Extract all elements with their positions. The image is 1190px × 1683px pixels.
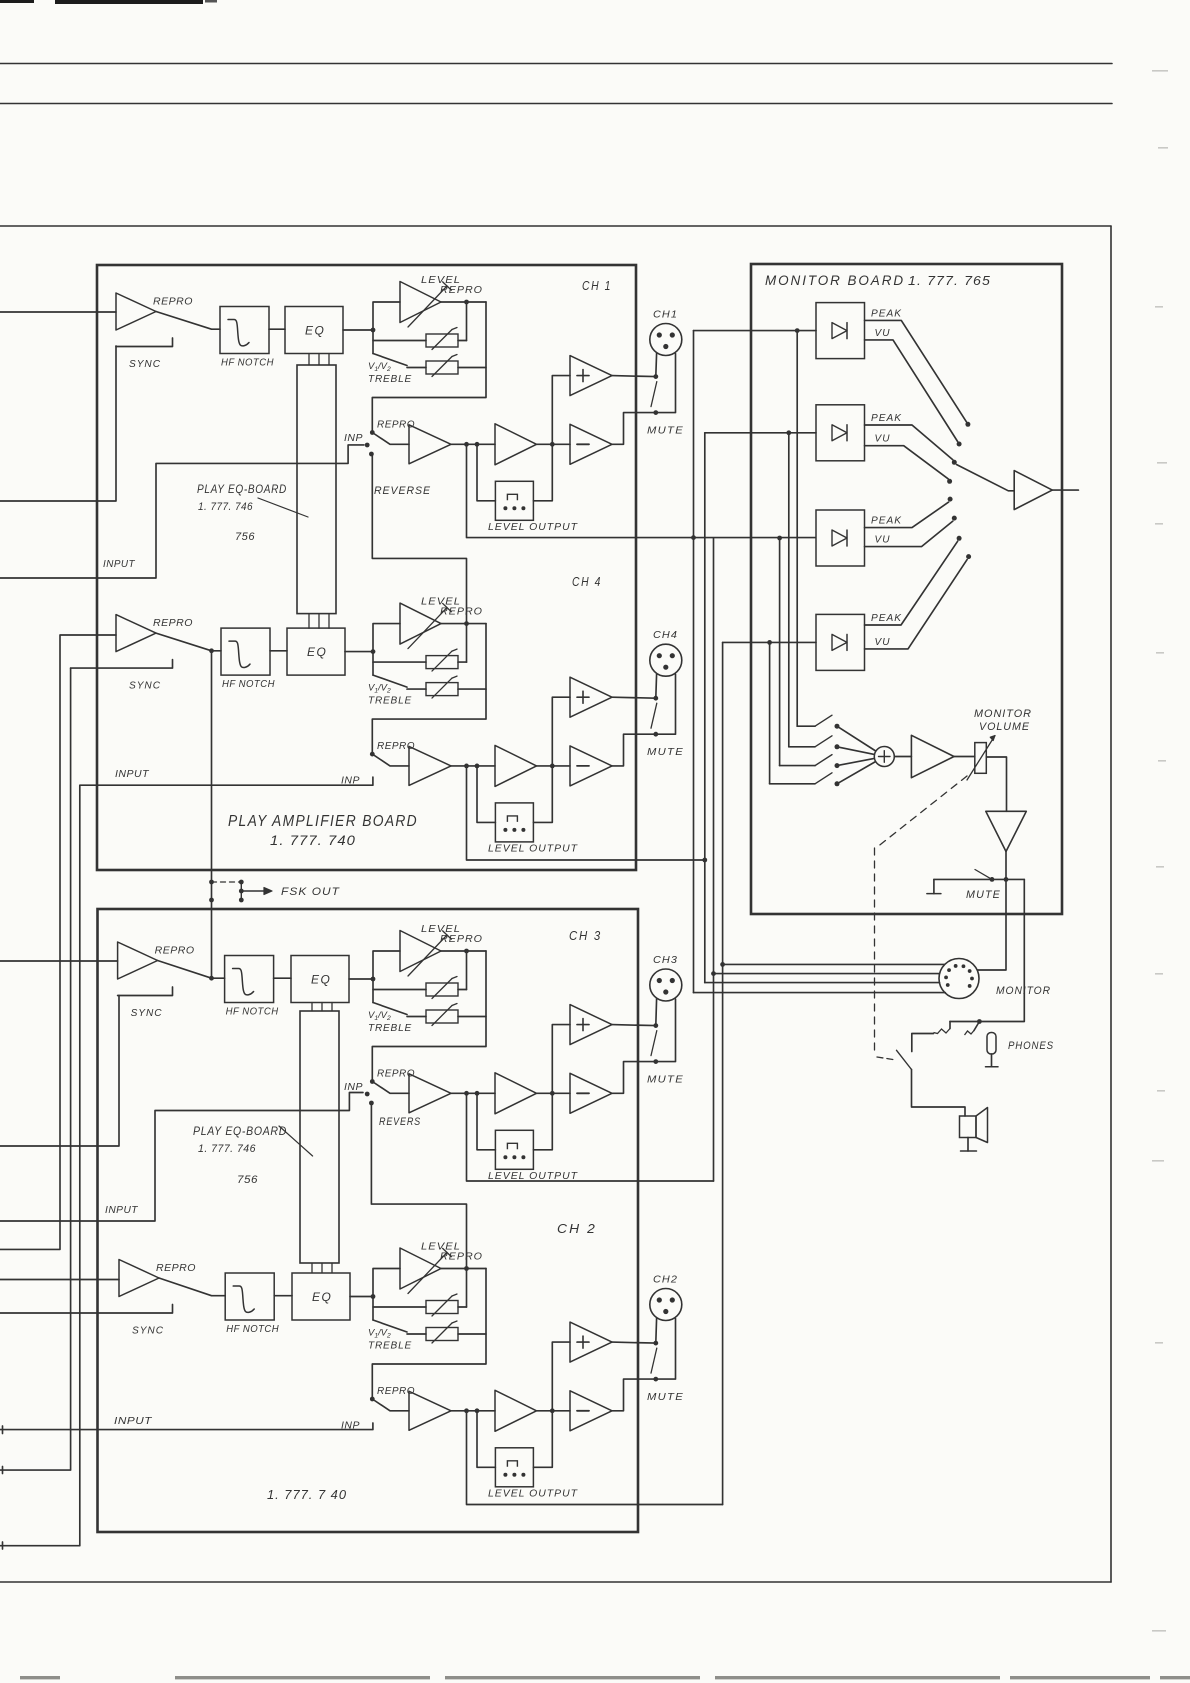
- node CH3 level output junction: [464, 949, 469, 954]
- svg-text:HF NOTCH: HF NOTCH: [222, 679, 275, 690]
- node CH4 output node: [550, 764, 555, 769]
- connector MONITOR socket: [939, 959, 979, 999]
- wire CH2 monitor tap: [467, 1411, 723, 1505]
- svg-text:INPUT: INPUT: [114, 1415, 153, 1427]
- amp CH3 repro input: [118, 942, 158, 979]
- svg-text:1. 777. 7 40: 1. 777. 7 40: [267, 1487, 347, 1502]
- svg-text:LEVEL OUTPUT: LEVEL OUTPUT: [488, 521, 579, 533]
- svg-text:PEAK: PEAK: [871, 413, 902, 424]
- wire monitor line 3: [705, 982, 940, 984]
- switch monitor select 3: [780, 765, 815, 767]
- scan mark bottom edge band: [20, 1676, 60, 1679]
- node phones junction: [977, 1019, 982, 1024]
- switch CH3 reverse contact: [369, 1101, 374, 1106]
- wire meter output to frame edge: [1052, 489, 1078, 491]
- svg-text:EQ: EQ: [307, 645, 327, 659]
- svg-text:1. 777. 746: 1. 777. 746: [198, 1143, 256, 1155]
- svg-text:TREBLE: TREBLE: [368, 696, 412, 707]
- switch CH4 treble select: [372, 662, 374, 675]
- node bus CH3 monitor junction: [711, 971, 716, 976]
- wire monitor select 2 to summing node: [837, 747, 874, 755]
- resistor CH3 treble V1: [373, 979, 426, 990]
- node CH2 level output junction: [464, 1266, 469, 1271]
- wire FSK vertical: [211, 651, 213, 978]
- svg-text:MUTE: MUTE: [966, 889, 1001, 901]
- wire CH2 treble V1 to collector: [458, 1306, 467, 1308]
- scan marks right margin: [1152, 70, 1168, 72]
- svg-text:PEAK: PEAK: [871, 613, 902, 624]
- box CH2 EQ: [292, 1273, 350, 1320]
- amp CH3 drive: [409, 1074, 451, 1113]
- switch CH1 reverse contact: [369, 452, 374, 457]
- wire CH3 notch to EQ: [274, 977, 291, 979]
- svg-text:CH2: CH2: [653, 1275, 678, 1286]
- wire CH3 XLR left leg: [655, 999, 658, 1026]
- svg-text:SYNC: SYNC: [129, 358, 161, 370]
- amp CH2 repro input: [119, 1260, 159, 1297]
- box CH2 HF NOTCH: [225, 1273, 274, 1320]
- node CH3 EQ output: [371, 977, 376, 982]
- switch CH1 INP contact: [365, 443, 370, 448]
- wire CH1 treble V2 to collector: [458, 367, 486, 369]
- wire CH1 input from left edge: [0, 445, 364, 578]
- box PEAK/VU block 3: [816, 510, 865, 566]
- wire output stage to mute: [1005, 852, 1007, 880]
- wire stub tick left edge CH4 input: [2, 1542, 4, 1549]
- wire CH1 EQ output to node: [343, 329, 373, 331]
- switch CH3 treble select: [372, 990, 374, 1003]
- node bus CH2 monitor junction: [720, 962, 725, 967]
- node bus CH4 tap junction: [702, 858, 707, 863]
- wire phones feed down: [950, 879, 1024, 1021]
- connector XLR CH2: [650, 1289, 682, 1321]
- amp CH1 level repro variable: [373, 302, 400, 330]
- pins play EQ-board 1 top: [308, 354, 310, 366]
- svg-text:PLAY AMPLIFIER BOARD: PLAY AMPLIFIER BOARD: [228, 813, 418, 830]
- box CH1 HF NOTCH: [220, 307, 269, 354]
- svg-text:SYNC: SYNC: [131, 1007, 163, 1019]
- outer frame right edge: [1110, 226, 1112, 1582]
- svg-text:LEVEL OUTPUT: LEVEL OUTPUT: [488, 1170, 579, 1182]
- outer frame bottom edge: [0, 1581, 1111, 1583]
- monitor board outline: [751, 264, 1062, 914]
- wire CH1 sync to left edge: [0, 346, 116, 501]
- svg-text:MUTE: MUTE: [647, 425, 684, 437]
- pins play EQ-board 2 top: [311, 1003, 313, 1012]
- svg-text:EQ: EQ: [305, 324, 325, 338]
- wire CH1 notch to EQ: [269, 328, 285, 330]
- svg-text:REPRO: REPRO: [440, 933, 483, 945]
- amp CH2 line: [495, 1390, 537, 1431]
- meter rectifier symbol block 1: [832, 323, 847, 339]
- amp CH2 balanced plus: [552, 1342, 570, 1411]
- amp CH4 line: [495, 745, 537, 786]
- pins play EQ-board 1 bottom: [308, 614, 310, 629]
- box PEAK/VU block 1: [816, 303, 865, 359]
- svg-text:INPUT: INPUT: [115, 768, 150, 780]
- wire CH3 plus output to mute: [612, 1025, 656, 1026]
- play amplifier board 2 outline: [98, 909, 639, 1532]
- amp CH2 level repro variable: [373, 1269, 400, 1297]
- svg-text:MUTE: MUTE: [647, 1074, 684, 1086]
- wire CH4 notch to EQ: [270, 650, 287, 652]
- node PEAK/VU block 3 selector-bus junction: [777, 536, 782, 541]
- wire CH2 level output box left leg: [477, 1411, 495, 1468]
- amp meter output: [1014, 471, 1052, 510]
- wire CH2 repro input from left edge: [0, 1279, 119, 1281]
- wire CH2 level output box right leg: [533, 1411, 552, 1468]
- connector PHONES jack: [987, 1033, 996, 1055]
- play amplifier board 1 outline: [97, 265, 636, 870]
- wire FSK right bar: [240, 882, 242, 900]
- svg-text:756: 756: [235, 531, 255, 543]
- switch CH1 sync contact: [116, 338, 173, 347]
- wire CH3 treble collector: [372, 951, 486, 1082]
- svg-text:1. 777. 746: 1. 777. 746: [198, 501, 253, 513]
- wire CH1 treble V1 to collector: [458, 340, 467, 342]
- switch CH3 INP contact: [365, 1092, 370, 1097]
- svg-text:REVERSE: REVERSE: [374, 485, 431, 497]
- svg-text:HF NOTCH: HF NOTCH: [221, 358, 274, 369]
- wire selector bus block 1: [796, 331, 798, 727]
- wire CH1 drive amp to line amp: [451, 443, 495, 445]
- node monitor mute junction: [1004, 877, 1009, 882]
- wire CH3 repro switch blade: [158, 961, 225, 979]
- amp CH4 balanced minus: [570, 746, 612, 786]
- box PEAK/VU block 4: [816, 614, 865, 670]
- amp CH4 balanced plus: [552, 697, 570, 766]
- node CH2 line node a: [464, 1408, 469, 1413]
- callout line play EQ-board 2: [279, 1126, 313, 1156]
- wire PEAK/VU block 1 input: [694, 330, 817, 332]
- wire CH4 treble V1 to collector: [458, 661, 467, 663]
- connector XLR CH4: [650, 644, 682, 676]
- wire CH3 line amp output: [537, 1092, 571, 1094]
- amp monitor output stage (down): [986, 811, 1027, 851]
- wire monitor line 1: [723, 963, 945, 965]
- svg-text:REVERS: REVERS: [379, 1116, 421, 1128]
- wire CH2 XLR left leg: [655, 1318, 658, 1343]
- wire output stage to connector right: [977, 879, 1006, 970]
- node CH2 output node: [550, 1408, 555, 1413]
- wire monitor line 4: [694, 992, 946, 994]
- title block rule upper: [0, 63, 1112, 65]
- wire CH1 line amp output: [537, 443, 571, 445]
- switch speaker blade: [897, 1050, 912, 1069]
- box CH3 HF NOTCH: [225, 956, 274, 1003]
- wire PEAK output block 2: [865, 425, 953, 460]
- wire bus CH3 to monitor: [713, 538, 715, 1181]
- connector XLR CH1: [650, 324, 682, 356]
- wire CH4 repro switch blade: [156, 633, 221, 651]
- switch meter selector blade: [957, 465, 1015, 491]
- wire PEAK/VU block 4 input: [723, 641, 816, 643]
- svg-text:CH 2: CH 2: [557, 1221, 597, 1236]
- svg-text:PEAK: PEAK: [871, 516, 902, 527]
- wire CH2 line amp output: [537, 1410, 571, 1412]
- wire CH4 XLR left leg: [655, 674, 658, 699]
- node CH3 repro-FSK junction: [209, 976, 214, 981]
- switch monitor select 4: [770, 783, 815, 785]
- wire selector bus block 3: [779, 538, 781, 766]
- box CH2 level output: [495, 1448, 533, 1487]
- wire CH4 plus output to mute: [612, 697, 656, 698]
- wire CH2 drive amp to line amp: [451, 1410, 495, 1412]
- wire CH4 input bus from left edge: [0, 777, 373, 1546]
- svg-text:SYNC: SYNC: [129, 680, 161, 692]
- wire bus CH2 to monitor: [722, 642, 724, 1504]
- wire CH1 reverse to CH4: [372, 454, 466, 624]
- wire mute to phones feed: [992, 878, 1024, 880]
- wire monitor select 3 to summing node: [837, 758, 874, 765]
- scan mark top-left black strip: [0, 0, 34, 3]
- wire CH4 repro input bus from left edge: [0, 635, 116, 1249]
- svg-text:VOLUME: VOLUME: [979, 721, 1030, 733]
- switch CH4 repro drive contact: [370, 752, 375, 757]
- wire monitor select 1 to summing node: [837, 726, 876, 751]
- wire CH3 drive amp to line amp: [451, 1092, 495, 1094]
- amp CH2 balanced minus: [570, 1391, 612, 1431]
- amp monitor: [911, 735, 954, 777]
- box CH3 level output: [495, 1130, 533, 1169]
- wire CH2 level repro output: [441, 1268, 486, 1270]
- svg-text:INP: INP: [344, 1082, 363, 1093]
- potentiometer MONITOR VOLUME: [975, 743, 987, 774]
- selector contact dots PEAK/VU: [965, 422, 970, 427]
- wire CH4 level output box right leg: [533, 766, 552, 823]
- switch CH3 mute: [653, 1023, 658, 1028]
- wire CH1 level repro output: [441, 301, 486, 303]
- speaker symbol: [960, 1116, 977, 1138]
- amp CH3 line: [495, 1073, 537, 1114]
- switch CH2 mute: [653, 1341, 658, 1346]
- svg-text:REPRO: REPRO: [153, 296, 193, 308]
- wire CH4 level repro output: [441, 623, 486, 625]
- svg-text:CH 1: CH 1: [582, 278, 612, 293]
- wire VU output block 3: [865, 521, 953, 547]
- svg-text:INP: INP: [341, 775, 360, 786]
- svg-text:SYNC: SYNC: [132, 1325, 164, 1337]
- node CH1 EQ output: [371, 328, 376, 333]
- amp CH3 level repro variable: [373, 951, 400, 979]
- meter rectifier symbol block 2: [832, 425, 847, 441]
- box CH1 EQ: [285, 307, 343, 354]
- connector XLR CH3: [650, 969, 682, 1001]
- node PEAK/VU block 4 selector-bus junction: [767, 640, 772, 645]
- wire PEAK output block 3: [865, 502, 949, 527]
- wire CH4 drive amp to line amp: [451, 765, 495, 767]
- svg-text:VU: VU: [875, 328, 891, 339]
- wire CH1 level output box right leg: [533, 444, 552, 501]
- amp CH1 repro input: [116, 293, 156, 330]
- switch CH1 repro drive contact: [370, 430, 375, 435]
- meter rectifier symbol block 4: [832, 634, 847, 650]
- node CH1 line node b: [475, 442, 480, 447]
- resistor CH2 treble V2: [407, 1333, 426, 1335]
- switch CH3 sync contact: [118, 987, 173, 996]
- svg-text:MUTE: MUTE: [647, 746, 684, 758]
- node CH4 line node b: [475, 764, 480, 769]
- box CH4 HF NOTCH: [221, 628, 270, 675]
- wire CH4 treble V2 to collector: [458, 688, 486, 690]
- box CH4 level output: [495, 803, 533, 842]
- wire CH2 minus output to mute: [612, 1319, 676, 1411]
- wire CH3 level output box left leg: [477, 1093, 495, 1150]
- node FSK right top: [239, 880, 244, 885]
- wire CH3 level output box right leg: [533, 1093, 552, 1150]
- box PEAK/VU block 2: [816, 405, 865, 461]
- wire stub tick left edge CH4 sync: [2, 1467, 4, 1474]
- wire monitor line 2: [714, 973, 940, 975]
- svg-text:VU: VU: [875, 434, 891, 445]
- wire CH3 monitor tap: [467, 1093, 714, 1181]
- svg-text:LEVEL OUTPUT: LEVEL OUTPUT: [488, 1487, 579, 1499]
- wire FSK dashed link: [212, 881, 242, 883]
- switch monitor MUTE: [934, 878, 992, 880]
- svg-text:CH1: CH1: [653, 310, 678, 321]
- switch phones jack contact right: [974, 1022, 979, 1031]
- summing node monitor: [874, 747, 894, 767]
- resistor CH3 treble V2: [407, 1016, 426, 1018]
- switch phones jack contact left: [949, 1022, 951, 1029]
- switch CH1 treble select: [372, 341, 374, 354]
- svg-text:INPUT: INPUT: [103, 558, 136, 570]
- wire CH4 sync bus to left edge: [0, 668, 71, 1470]
- amp CH1 balanced minus: [570, 424, 612, 464]
- dashed mechanical link volume to phones switch: [876, 776, 967, 848]
- amp CH1 line: [495, 424, 537, 465]
- pins play EQ-board 2 bottom: [311, 1263, 313, 1272]
- svg-text:PEAK: PEAK: [871, 308, 902, 319]
- wire CH1 level output box left leg: [477, 444, 495, 501]
- amp CH1 balanced plus: [552, 376, 570, 445]
- amp CH3 balanced minus: [570, 1073, 612, 1113]
- resistor CH4 treble V2: [407, 688, 426, 690]
- wire CH4 monitor tap: [467, 766, 705, 860]
- svg-text:VU: VU: [875, 637, 891, 648]
- svg-text:INP: INP: [341, 1420, 360, 1431]
- node PEAK/VU block 1 selector-bus junction: [795, 328, 800, 333]
- amp CH3 balanced plus: [552, 1025, 570, 1094]
- node CH4 EQ output: [371, 649, 376, 654]
- switch CH2 sync contact: [0, 1305, 173, 1314]
- node FSK dash left bottom: [209, 898, 214, 903]
- wire bus CH4 to monitor: [704, 433, 706, 983]
- amp CH4 level repro variable: [373, 624, 400, 652]
- svg-text:REPRO: REPRO: [153, 617, 193, 629]
- svg-text:LEVEL OUTPUT: LEVEL OUTPUT: [488, 842, 579, 854]
- wire CH3 input from left edge: [0, 1093, 363, 1222]
- svg-text:TREBLE: TREBLE: [368, 1341, 412, 1352]
- meter rectifier symbol block 3: [832, 530, 847, 546]
- wire monitor amp to volume: [954, 756, 975, 758]
- switch CH3 repro drive contact: [370, 1079, 375, 1084]
- node CH4 level output junction: [464, 621, 469, 626]
- wire CH2 treble V2 to collector: [458, 1333, 486, 1335]
- box CH1 level output: [495, 481, 533, 520]
- wire CH3 level repro output: [441, 950, 486, 952]
- switch monitor select 1: [797, 725, 815, 727]
- box CH3 EQ: [291, 956, 349, 1003]
- wire CH3 repro input from left edge: [0, 960, 118, 962]
- wire monitor select 4 to summing node: [837, 762, 875, 784]
- wire CH2 notch to EQ: [274, 1295, 292, 1297]
- wire VU output block 2: [865, 446, 949, 479]
- wire volume to phones amp: [986, 757, 1006, 811]
- svg-text:HF NOTCH: HF NOTCH: [226, 1007, 279, 1018]
- node CH4 repro-FSK junction: [209, 648, 214, 653]
- svg-text:1. 777. 765: 1. 777. 765: [908, 274, 991, 288]
- svg-text:MONITOR BOARD: MONITOR BOARD: [765, 272, 905, 288]
- wire PEAK/VU block 2 input: [705, 432, 816, 434]
- svg-text:FSK OUT: FSK OUT: [281, 886, 340, 898]
- wire PEAK output block 4: [865, 541, 958, 625]
- wire CH4 level output box left leg: [477, 766, 495, 823]
- resistor CH1 treble V2: [407, 367, 426, 369]
- wire CH4 EQ output to node: [345, 651, 373, 653]
- node CH3 line node a: [464, 1091, 469, 1096]
- box play EQ-board 1 rectangle: [297, 365, 336, 614]
- svg-text:CH 3: CH 3: [569, 928, 602, 943]
- svg-text:MUTE: MUTE: [647, 1391, 684, 1403]
- wire CH3 treble V1 to collector: [458, 989, 467, 991]
- wire CH1 treble collector: [372, 302, 486, 433]
- node PEAK/VU block 2 selector-bus junction: [786, 430, 791, 435]
- node CH1 level output junction: [464, 300, 469, 305]
- amp CH4 repro input: [116, 615, 156, 652]
- node FSK dash left top: [209, 880, 214, 885]
- wire CH3 EQ output to node: [349, 978, 373, 980]
- wire CH1 minus output to mute: [612, 354, 676, 445]
- svg-text:756: 756: [237, 1174, 258, 1186]
- svg-text:REPRO: REPRO: [156, 1262, 196, 1274]
- amp CH2 drive: [409, 1391, 451, 1430]
- wire VU output block 1: [865, 340, 958, 442]
- wire CH3 treble V2 to collector: [458, 1016, 486, 1018]
- node CH2 EQ output: [371, 1294, 376, 1299]
- svg-text:1. 777. 740: 1. 777. 740: [270, 833, 356, 848]
- wire CH3 sync to left edge: [0, 996, 119, 1147]
- svg-text:CH 4: CH 4: [572, 574, 602, 589]
- wire CH3 minus output to mute: [612, 999, 676, 1093]
- wire summing to monitor amp: [895, 756, 912, 758]
- wire CH4 minus output to mute: [612, 674, 676, 766]
- svg-text:INPUT: INPUT: [105, 1204, 139, 1216]
- ground speaker: [967, 1138, 969, 1152]
- node CH3 output node: [550, 1091, 555, 1096]
- resistor CH1 treble V1: [373, 330, 426, 341]
- wire speaker feed: [912, 1070, 966, 1117]
- svg-text:REPRO: REPRO: [440, 1251, 483, 1263]
- switch monitor select 2: [789, 746, 815, 748]
- svg-text:MONITOR: MONITOR: [974, 708, 1032, 720]
- wire PEAK output block 1: [865, 320, 967, 421]
- wire CH2 treble collector: [372, 1269, 486, 1400]
- switch CH4 sync contact: [71, 660, 173, 669]
- node FSK right bottom: [239, 898, 244, 903]
- title block rule lower: [0, 103, 1112, 105]
- svg-text:VU: VU: [875, 535, 891, 546]
- node CH4 line node a: [464, 764, 469, 769]
- wire CH4 line amp output: [537, 765, 571, 767]
- wire CH2 repro switch blade: [159, 1278, 225, 1296]
- wire bus CH1 to monitor: [693, 331, 695, 993]
- wire CH2 plus output to mute: [612, 1342, 656, 1343]
- svg-text:CH4: CH4: [653, 630, 678, 641]
- svg-text:REPRO: REPRO: [440, 606, 483, 618]
- node CH3 line node b: [475, 1091, 480, 1096]
- svg-text:TREBLE: TREBLE: [368, 374, 412, 385]
